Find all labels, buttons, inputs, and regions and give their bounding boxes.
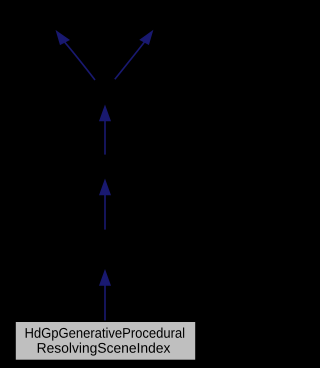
wire: vertical inheritance edge (top) — [100, 106, 111, 155]
wire: vertical inheritance edge (middle) — [100, 180, 111, 230]
node HdGpGenerativeProceduralResolvingSceneIndex — [15, 321, 196, 360]
wire: vertical inheritance edge (bottom) — [100, 271, 111, 322]
wire: inheritance edge to upper-left parent — [56, 31, 95, 80]
wire: inheritance edge to upper-right parent — [115, 31, 153, 79]
